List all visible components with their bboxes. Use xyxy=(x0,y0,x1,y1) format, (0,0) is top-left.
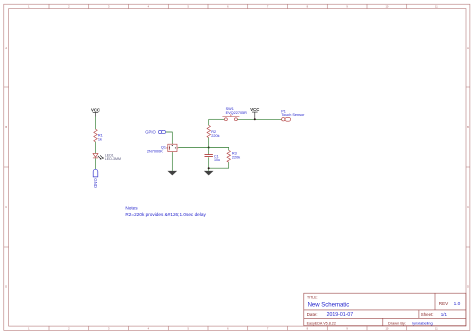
wire R1 to LED1 xyxy=(95,142,97,154)
resistor R2 xyxy=(207,125,211,137)
svg-text:EVQ22705R: EVQ22705R xyxy=(226,111,248,115)
svg-text:A: A xyxy=(467,46,469,50)
transistor Q1 xyxy=(166,144,178,153)
svg-text:10u: 10u xyxy=(214,158,220,162)
svg-text:1: 1 xyxy=(28,327,30,331)
svg-text:Date:: Date: xyxy=(307,312,318,317)
wire R3 bottom to ground node xyxy=(209,162,229,168)
resistor R3 xyxy=(227,150,231,162)
wire top rail right (SW1 to P1) xyxy=(238,118,282,120)
svg-text:10: 10 xyxy=(385,327,388,331)
svg-text:Drawn By:: Drawn By: xyxy=(388,321,406,326)
connector P1 symbol xyxy=(282,117,291,121)
svg-text:B: B xyxy=(467,125,469,129)
svg-text:220k: 220k xyxy=(232,156,240,160)
wire node to R3 top xyxy=(209,148,229,151)
svg-text:4: 4 xyxy=(148,5,150,9)
svg-text:8: 8 xyxy=(307,5,309,9)
net port GPIO xyxy=(145,130,165,135)
switch SW1 xyxy=(222,114,239,121)
svg-text:1/1: 1/1 xyxy=(441,312,448,317)
wire Q1 source to ground xyxy=(171,152,173,171)
connector pin P2 (bullet) xyxy=(93,169,98,177)
svg-text:GND: GND xyxy=(93,178,98,188)
svg-text:6: 6 xyxy=(227,327,229,331)
svg-text:4: 4 xyxy=(148,327,150,331)
svg-text:Sheet:: Sheet: xyxy=(421,312,434,317)
svg-text:D: D xyxy=(467,285,469,289)
svg-text:11: 11 xyxy=(435,5,438,9)
svg-text:REV: REV xyxy=(439,301,449,306)
wire VCC to R1 xyxy=(95,117,97,130)
wire top rail left (R2 top to SW1) xyxy=(209,118,225,120)
svg-text:3: 3 xyxy=(108,327,110,331)
svg-text:C: C xyxy=(5,205,7,209)
svg-text:B: B xyxy=(5,125,7,129)
svg-text:C: C xyxy=(467,205,469,209)
svg-text:lynxlabeling: lynxlabeling xyxy=(412,321,432,326)
svg-text:1.0: 1.0 xyxy=(454,301,461,307)
frame row letters xyxy=(5,46,469,289)
junction dot at ground node xyxy=(208,167,210,169)
net flag VCC (right) xyxy=(250,107,259,119)
svg-text:7: 7 xyxy=(267,327,269,331)
svg-text:10: 10 xyxy=(385,5,388,9)
svg-text:TITLE:: TITLE: xyxy=(307,295,318,299)
net flag VCC (left) xyxy=(91,107,100,116)
resistor R1 xyxy=(94,129,98,142)
svg-text:GPIO: GPIO xyxy=(145,130,156,135)
svg-text:9: 9 xyxy=(346,5,348,9)
capacitor C1 xyxy=(205,155,213,157)
svg-text:VCC: VCC xyxy=(91,107,100,112)
junction dot at VCC rail xyxy=(254,118,256,120)
svg-text:D: D xyxy=(5,285,7,289)
wire R2 bottom to node xyxy=(208,138,210,148)
svg-text:7: 7 xyxy=(267,5,269,9)
svg-text:9: 9 xyxy=(346,327,348,331)
svg-text:Notes: Notes xyxy=(125,206,138,211)
junction dot at RC node xyxy=(208,147,210,149)
frame column tick marks xyxy=(49,4,407,330)
svg-text:5: 5 xyxy=(187,5,189,9)
svg-text:2: 2 xyxy=(68,5,70,9)
ground flag (under Q1) xyxy=(168,171,178,176)
wire C1 bottom to ground node xyxy=(208,157,210,171)
svg-text:Touch Sensor: Touch Sensor xyxy=(281,113,305,117)
svg-text:New Schematic: New Schematic xyxy=(308,302,350,308)
svg-text:6: 6 xyxy=(227,5,229,9)
frame row tick marks xyxy=(4,87,470,247)
wire GPIO to Q1 gate xyxy=(166,132,173,144)
svg-text:3: 3 xyxy=(108,5,110,9)
svg-text:1k: 1k xyxy=(98,138,102,142)
svg-text:2: 2 xyxy=(68,327,70,331)
svg-text:EasyEDA V5.8.22: EasyEDA V5.8.22 xyxy=(307,322,336,326)
svg-text:1: 1 xyxy=(28,5,30,9)
svg-text:2019-01-07: 2019-01-07 xyxy=(327,312,354,318)
wire node to C1 xyxy=(208,148,210,155)
wire Q1 drain to node xyxy=(178,147,209,149)
wire R2 top lead xyxy=(208,119,210,125)
svg-text:220k: 220k xyxy=(211,134,219,138)
svg-text:A: A xyxy=(5,46,7,50)
title block outline xyxy=(304,293,466,326)
svg-text:11: 11 xyxy=(435,327,438,331)
svg-text:LED-3MM: LED-3MM xyxy=(105,157,121,161)
ground flag (under C1) xyxy=(204,171,214,176)
svg-text:R2=220k provides &#126;1.0sec: R2=220k provides &#126;1.0sec delay xyxy=(125,212,206,217)
LED D1 symbol xyxy=(93,153,98,158)
LED light arrows xyxy=(98,155,104,159)
wire LED1 to connector xyxy=(95,158,97,169)
svg-text:VCC: VCC xyxy=(250,107,259,112)
svg-text:5: 5 xyxy=(187,327,189,331)
svg-text:2N7000K: 2N7000K xyxy=(147,149,163,153)
svg-text:8: 8 xyxy=(307,327,309,331)
